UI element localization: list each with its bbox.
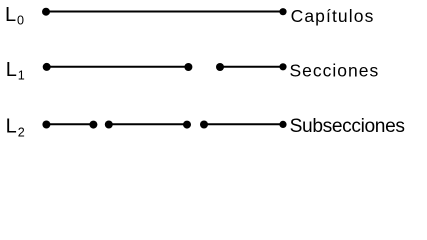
node level-2 segment C end dot (279, 121, 286, 128)
node level-2 segment B start dot (105, 121, 113, 129)
svg-text:0: 0 (17, 14, 24, 28)
node L0 label (5, 4, 24, 28)
wire level-1 segment A (47, 66, 189, 68)
wire level-1 segment B (220, 66, 283, 68)
wire level-2 segment C (204, 123, 283, 125)
node level-2 segment C start dot (200, 121, 208, 129)
node level-2 segment A end dot (89, 121, 97, 129)
node level-0 end dot (279, 8, 286, 15)
svg-text:L: L (6, 115, 17, 137)
node level-1 segment A start dot (43, 63, 51, 71)
svg-text:Subsecciones: Subsecciones (290, 116, 405, 137)
svg-text:2: 2 (18, 126, 25, 140)
svg-text:Capítulos: Capítulos (291, 6, 375, 26)
node level-0 start dot (42, 8, 50, 16)
svg-text:L: L (5, 4, 16, 26)
svg-text:L: L (6, 59, 17, 81)
svg-text:Secciones: Secciones (290, 60, 380, 80)
node L1 label (6, 59, 25, 82)
node L2 label (6, 115, 25, 139)
node level-1 segment A end dot (184, 63, 192, 71)
wire level-2 segment A (46, 123, 93, 125)
node level-1 segment B start dot (216, 63, 224, 71)
svg-text:1: 1 (18, 68, 25, 82)
wire level-2 segment B (109, 123, 187, 125)
node level-2 segment B end dot (183, 121, 191, 129)
node level-1 segment B end dot (279, 63, 286, 70)
node level-2 segment A start dot (42, 121, 50, 129)
wire level-0 span (46, 11, 283, 13)
